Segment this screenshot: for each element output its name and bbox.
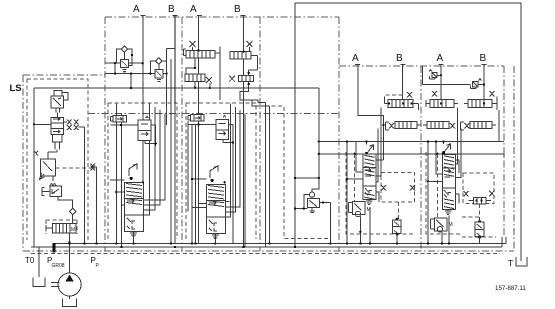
section boundary dash-dot top <box>105 16 339 18</box>
wire pilot drop A <box>354 154 356 202</box>
shuttle valve SH2 <box>471 79 486 89</box>
prop relief valve R5 <box>185 74 212 89</box>
wire B1 lower <box>174 103 176 244</box>
svg-text:157-887.11: 157-887.11 <box>495 285 526 292</box>
relief valve RB1 <box>426 91 458 108</box>
dashed bus <box>31 253 500 255</box>
relief valve R1 <box>106 49 155 89</box>
svg-text:B: B <box>480 53 487 64</box>
prop valve V5 <box>46 220 77 244</box>
LS section top dash-dot <box>23 74 105 76</box>
outer solid tank frame <box>295 3 521 261</box>
wire P gallery right block <box>319 141 504 143</box>
svg-text:A: A <box>190 4 197 15</box>
svg-text:T: T <box>508 258 513 268</box>
wire P bus <box>54 243 506 245</box>
wire B2 <box>243 15 245 247</box>
wires pilot A down <box>360 207 370 244</box>
right block outer right edge <box>513 66 515 251</box>
spring pair LS <box>91 164 96 171</box>
wire A3 <box>358 64 384 160</box>
dashed box right A <box>346 152 416 234</box>
port P_GR08 thick tick <box>53 243 56 253</box>
spring X B right <box>489 191 494 197</box>
port tick B1 <box>173 15 178 17</box>
svg-text:GR08: GR08 <box>52 263 65 269</box>
wire B4 <box>483 64 485 100</box>
wire A4 <box>440 64 442 100</box>
check valve D1 <box>69 208 76 224</box>
svg-text:B: B <box>396 53 403 64</box>
port tick A4 <box>439 64 444 66</box>
port tick B4 <box>482 64 487 66</box>
shuttle valve SH1 <box>429 70 442 80</box>
relief valve RB2 <box>464 91 497 110</box>
svg-text:T0: T0 <box>25 256 35 265</box>
wires section2 risers <box>167 49 171 244</box>
wire T bus <box>31 246 502 248</box>
port tick B3 <box>401 64 406 66</box>
reducer valve YB0 <box>469 197 492 204</box>
wire LS riser A <box>346 142 348 244</box>
wire tank-frame left edge <box>294 3 296 247</box>
valve V4 <box>42 176 72 208</box>
svg-text:B: B <box>168 4 175 15</box>
reducing valve V6 <box>308 199 320 213</box>
wire pump up <box>69 244 71 275</box>
right block divider <box>420 66 422 251</box>
port tick A1 <box>141 15 146 17</box>
check valve D3 <box>156 58 162 64</box>
tank T0 <box>33 278 45 287</box>
wire B1 <box>174 15 176 103</box>
LS section left edge <box>22 75 24 251</box>
dashed pilot box A <box>381 172 415 202</box>
wire T0 down <box>38 247 40 277</box>
check valve D2 <box>121 46 127 52</box>
wire A1 <box>142 15 144 181</box>
wires LS <box>84 127 86 244</box>
compensator valve V1 <box>51 91 68 118</box>
wire LS gallery y88 <box>34 87 319 89</box>
svg-text:A: A <box>437 53 444 64</box>
solenoid valve YA <box>393 202 402 245</box>
spool valve SB <box>442 140 456 214</box>
compensator valve PV3 <box>216 116 234 244</box>
dashed box LS <box>27 79 88 240</box>
relief valve V3 <box>34 151 57 180</box>
spool valve S2 <box>125 164 144 245</box>
dashed box section2 <box>108 103 177 239</box>
wire mid risers <box>258 103 270 247</box>
svg-text:M: M <box>71 227 75 233</box>
relief valve RB3 <box>423 122 455 129</box>
wires spool B ports <box>428 108 461 204</box>
dashed box section3 <box>186 103 256 239</box>
dashed box mid pilot <box>265 106 330 239</box>
section divider box2/box3 <box>181 17 183 251</box>
wires spool A ports <box>347 108 384 202</box>
right block left edge <box>338 17 340 251</box>
reducing pilot valve PV3a <box>188 115 216 244</box>
wire LS tap <box>34 123 51 125</box>
spring X B left <box>464 191 469 197</box>
wire pilot drop right <box>498 110 500 142</box>
solenoid valve YB <box>462 204 484 244</box>
wire LS frame vertical <box>33 88 35 247</box>
wires section3 risers <box>188 104 245 248</box>
relief valve RB4 <box>461 122 497 131</box>
port tick A2 <box>197 15 202 17</box>
tank pump <box>63 299 77 307</box>
port tick B2 <box>241 15 246 17</box>
relief valve RA1 <box>385 92 419 110</box>
LS gallery dash-dot <box>88 112 339 114</box>
wire spool2 left ports <box>110 180 125 205</box>
wire spool3 left ports <box>192 179 206 208</box>
pilot valve PA <box>349 202 371 217</box>
wire pilot feed <box>295 177 319 179</box>
spring X A right <box>410 185 415 191</box>
prop relief valve R3 <box>184 41 220 100</box>
spool valve SA <box>363 140 376 204</box>
pilot valve PB <box>431 218 453 232</box>
wire LS riser B <box>427 142 429 244</box>
wire cross gallery <box>423 66 471 85</box>
svg-text:A: A <box>352 53 359 64</box>
compensator valve PV2 <box>138 116 157 146</box>
svg-text:LS: LS <box>10 83 22 94</box>
port tick A3 <box>355 64 360 66</box>
relief valve RA2 <box>382 122 421 131</box>
wire B1 branch <box>167 48 175 50</box>
wire pilot drop B <box>436 154 438 218</box>
right block top edge <box>339 65 504 67</box>
dashed link V3 to spring <box>56 167 91 169</box>
wire LS drop to pilot supply <box>312 88 319 192</box>
wire bus right risers <box>502 237 506 247</box>
wire B3 <box>402 64 404 100</box>
wires pilot B down <box>442 216 449 244</box>
wire A2 <box>198 15 200 244</box>
right block inner right edge <box>503 66 505 237</box>
svg-text:A: A <box>133 4 140 15</box>
tank TL symbol <box>516 257 527 266</box>
section box2 left edge <box>104 17 106 251</box>
valve V2 3pos <box>51 117 85 152</box>
spring X A left <box>381 185 386 191</box>
wire pilot gallery right block <box>319 154 504 158</box>
section box3 right edge <box>259 17 261 251</box>
reducing pilot valve PV2a <box>111 116 139 127</box>
pump P1 <box>58 273 81 296</box>
pump shaft <box>51 283 60 287</box>
dashed box right B <box>426 152 496 237</box>
relief valve R2 <box>149 61 168 81</box>
wire pump drain <box>69 296 71 299</box>
check valve D4 <box>309 192 314 197</box>
svg-text:B: B <box>234 4 241 15</box>
prop relief valve R6 <box>229 75 270 106</box>
dashed pilot box B <box>463 173 494 203</box>
spool valve S3 <box>206 166 225 245</box>
prop relief valve R4 <box>230 41 257 76</box>
dash-dot bus <box>23 250 514 252</box>
